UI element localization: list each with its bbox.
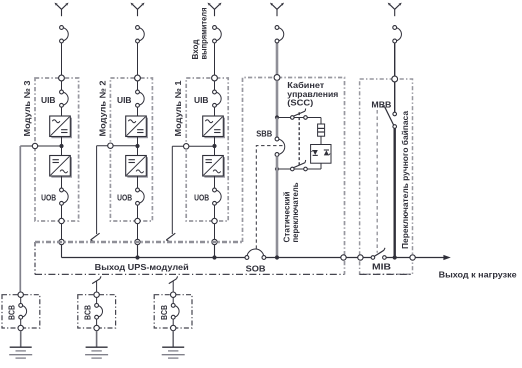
breaker UIB module 2 xyxy=(136,90,145,107)
wire SCC tee to SBB (thick gray) xyxy=(276,118,279,138)
label BCB cabinet 1 xyxy=(8,305,17,320)
module 3 cabinet dashed box xyxy=(35,78,79,221)
label Модуль № 2 xyxy=(97,80,107,136)
SCC cabinet dashed box (L-shape part) xyxy=(243,78,345,275)
node: output-section boundary terminal module 2 xyxy=(135,239,140,244)
svg-text:UOB: UOB xyxy=(194,194,209,203)
wire top-to-BCB breaker 2 xyxy=(96,297,98,303)
svg-text:UIB: UIB xyxy=(41,96,56,105)
wire SCC entry to static-switch tee (thick gray) xyxy=(276,80,279,117)
wire inverter-to-UOB module 3 xyxy=(61,176,63,188)
wire battery tap module 1 xyxy=(172,145,214,147)
node: bus exit terminal bypass box xyxy=(410,255,415,260)
svg-text:Переключатель ручного байпаса: Переключатель ручного байпаса xyxy=(400,111,410,249)
label Модуль № 3 xyxy=(22,80,32,136)
svg-text:Кабинет: Кабинет xyxy=(287,81,324,90)
wire static-switch top branch xyxy=(277,118,321,125)
node: output-section boundary terminal module 1 xyxy=(212,239,217,244)
inverter block module 3 xyxy=(50,156,72,178)
input circuit breaker on module 1 feed xyxy=(213,26,222,43)
wire battery drop module 1 xyxy=(171,146,173,234)
wire SBB to bottom tee (thick gray) xyxy=(276,156,279,169)
wire battery tap module 2 xyxy=(97,145,138,147)
thyristor static switch block (anti-parallel SCR pair) xyxy=(311,145,331,164)
module 1 cabinet dashed box xyxy=(186,78,228,221)
breaker UIB module 1 xyxy=(213,90,222,107)
svg-text:SBB: SBB xyxy=(256,129,272,138)
wire rectifier-to-inverter module 2 xyxy=(137,137,139,156)
node: battery cabinet 2 top terminal xyxy=(94,292,99,297)
contact K1 static-switch top branch xyxy=(291,109,308,120)
node: battery cabinet 1 bottom terminal xyxy=(18,325,23,330)
battery stack symbol cabinet 1 xyxy=(9,347,32,358)
inverter block module 1 xyxy=(203,156,225,178)
label Выход к нагрузке xyxy=(439,269,517,279)
label MIB xyxy=(372,262,391,272)
svg-text:SOB: SOB xyxy=(246,264,266,273)
node: static switch bottom tee xyxy=(275,167,279,171)
breaker SBB xyxy=(275,137,285,156)
svg-text:Модуль № 3: Модуль № 3 xyxy=(22,80,32,136)
wire BCB-to-bottom terminal 3 xyxy=(172,319,174,328)
wire static-switch bottom branch xyxy=(277,168,321,170)
node: battery tap terminal module 2 xyxy=(108,143,113,148)
label UOB module 3 xyxy=(41,194,56,203)
breaker UIB module 3 xyxy=(60,90,69,107)
node: battery cabinet 3 top terminal xyxy=(171,292,176,297)
mechanical linkage MBB-MIB (dashed) xyxy=(376,110,378,253)
wire boundary-to-bus module 1 xyxy=(214,245,216,258)
incoming mains feed arrow (SCC input) xyxy=(270,3,284,17)
label UIB module 3 xyxy=(41,96,56,105)
label SOB xyxy=(246,264,266,273)
label UOB module 1 xyxy=(194,194,209,203)
open link blade battery cabinet 3 xyxy=(169,276,178,283)
svg-text:UOB: UOB xyxy=(117,194,132,203)
node: battery tap terminal module 3 xyxy=(32,143,37,148)
node: bypass feed entry terminal xyxy=(392,76,398,82)
label Статический переключатель xyxy=(283,182,301,242)
mechanical linkage static-switch contacts (dashed) xyxy=(298,112,300,165)
switch MBB (open contact) xyxy=(382,106,397,128)
node: bus junction SCC output xyxy=(275,255,279,259)
label Вход выпрямителя (rectifier input) xyxy=(191,7,208,59)
svg-text:(SCC): (SCC) xyxy=(287,99,313,108)
node: output-section boundary terminal module 3 xyxy=(59,239,64,244)
incoming mains feed arrow (module 2 input) xyxy=(131,3,145,17)
wire feed-to-cabinet (bypass) xyxy=(394,43,396,79)
inverter block module 2 xyxy=(126,156,148,178)
svg-text:UIB: UIB xyxy=(117,96,132,105)
node: SCC feed entry terminal xyxy=(274,75,280,81)
node: static switch top tee xyxy=(275,115,279,119)
node: feed entry terminal module 1 xyxy=(212,75,218,81)
label UIB module 1 xyxy=(194,96,209,105)
label MBB xyxy=(371,100,391,110)
label Модуль № 1 xyxy=(173,80,183,136)
breaker BCB battery cabinet 2 xyxy=(95,304,103,320)
breaker UOB module 1 xyxy=(213,188,222,205)
wire fuse-to-thyristor block xyxy=(320,136,322,144)
node: bus junction module 2 xyxy=(135,255,139,259)
node: bus entry terminal bypass box xyxy=(358,255,363,260)
wire feed-to-cabinet (SCC) xyxy=(276,43,279,78)
label Переключатель ручного байпаса xyxy=(400,111,410,249)
node: DC link junction module 2 xyxy=(135,144,139,148)
wire MBB to bus (thick) xyxy=(394,128,396,257)
breaker UOB module 2 xyxy=(136,188,145,205)
wire rectifier-to-inverter module 1 xyxy=(214,137,216,156)
wire boundary-to-bus module 2 xyxy=(137,245,139,258)
node: battery cabinet 3 bottom terminal xyxy=(171,325,176,330)
svg-text:UIB: UIB xyxy=(194,96,209,105)
output section top boundary (thick gray dash-dot) xyxy=(35,241,243,244)
node: feed entry terminal module 3 xyxy=(59,75,65,81)
wire left battery bus down to BCB1 xyxy=(19,146,21,295)
svg-text:переключатель: переключатель xyxy=(291,182,300,242)
svg-text:Модуль № 1: Модуль № 1 xyxy=(173,80,183,136)
battery stack symbol cabinet 3 xyxy=(162,347,185,358)
wire BCB-to-bottom terminal 2 xyxy=(96,319,98,328)
wire UIB-to-rectifier module 3 xyxy=(61,107,63,116)
contact K2 static-switch bottom branch xyxy=(291,160,308,171)
wire to battery stack 2 xyxy=(96,331,98,347)
wire inverter-to-UOB module 2 xyxy=(137,176,139,188)
wire top-to-BCB breaker 1 xyxy=(20,297,22,303)
breaker UOB module 3 xyxy=(60,188,69,205)
fuse F1 static-switch branch xyxy=(318,124,325,136)
node: DC link junction module 1 xyxy=(212,144,216,148)
svg-text:Модуль № 2: Модуль № 2 xyxy=(97,80,107,136)
input circuit breaker on module 2 feed xyxy=(136,26,145,43)
incoming mains feed arrow (module 1 input) xyxy=(208,3,222,17)
svg-text:BCB: BCB xyxy=(160,305,169,320)
manual bypass cabinet bottom edge (dark) xyxy=(360,273,413,275)
wire UOB-to-exit module 2 xyxy=(137,205,139,221)
node: output exit terminal module 1 xyxy=(212,218,217,223)
manual bypass cabinet dashed box xyxy=(360,79,413,274)
wire entry-to-UIB module 3 xyxy=(61,81,63,90)
incoming mains feed arrow (module 3 input) xyxy=(55,3,69,17)
label Кабинет управления (SCC) xyxy=(287,81,338,108)
label BCB cabinet 2 xyxy=(83,305,92,320)
wire entry-to-UIB module 1 xyxy=(214,81,216,90)
node: bus exit terminal SCC box xyxy=(341,255,346,260)
svg-text:Выход к нагрузке: Выход к нагрузке xyxy=(439,269,517,279)
wire to battery stack 3 xyxy=(172,331,174,347)
battery cabinet 3 dashed box xyxy=(154,295,192,328)
wire battery tap module 3 (to left battery bus) xyxy=(20,145,61,147)
wire top-to-BCB breaker 3 xyxy=(172,297,174,303)
svg-text:MIB: MIB xyxy=(372,262,391,272)
svg-text:UOB: UOB xyxy=(41,194,56,203)
input circuit breaker on bypass feed xyxy=(393,26,402,43)
wire UIB-to-rectifier module 2 xyxy=(137,107,139,116)
node: output exit terminal module 2 xyxy=(135,218,140,223)
open link blade module 1 battery drop xyxy=(166,233,175,241)
label BCB cabinet 3 xyxy=(160,305,169,320)
wire UIB-to-rectifier module 1 xyxy=(214,107,216,116)
node: bus junction module 1 xyxy=(212,255,216,259)
battery cabinet 2 dashed box xyxy=(78,295,116,328)
node: DC link junction module 3 xyxy=(59,144,63,148)
module 2 cabinet dashed box xyxy=(110,78,152,221)
node: bus junction bypass xyxy=(393,255,397,259)
output/SCC section bottom boundary (dark dash-dot) xyxy=(35,273,345,275)
wire battery drop module 2 xyxy=(96,146,98,234)
arrowhead output to load xyxy=(443,255,450,260)
rectifier block module 1 xyxy=(203,116,225,138)
interlock linkage SBB-SOB (dashed) xyxy=(256,146,282,250)
svg-text:MBB: MBB xyxy=(371,100,391,110)
wire riser battery cabinet 3 xyxy=(172,281,174,295)
wire riser battery cabinet 2 xyxy=(96,281,98,295)
input circuit breaker on SCC feed xyxy=(275,26,284,43)
incoming mains feed arrow (bypass input) xyxy=(388,3,402,17)
switch MIB (open contact) on bus xyxy=(371,248,386,259)
rectifier block module 2 xyxy=(126,116,148,138)
battery stack symbol cabinet 2 xyxy=(85,347,108,358)
node: feed entry terminal module 2 xyxy=(135,75,141,81)
label Выход UPS-модулей xyxy=(95,262,189,272)
svg-text:BCB: BCB xyxy=(8,305,17,320)
wire UOB-to-exit module 1 xyxy=(214,205,216,221)
wire boundary-to-bus module 3 xyxy=(61,245,63,258)
input circuit breaker on module 3 feed xyxy=(60,26,69,43)
wire SCC static switch output to bus (thick gray) xyxy=(276,169,279,258)
svg-text:выпрямителя: выпрямителя xyxy=(200,7,209,59)
wire UOB-to-exit module 3 xyxy=(61,205,63,221)
open link blade module 2 battery drop xyxy=(91,233,100,241)
wire feed-to-cabinet (module 2) xyxy=(137,43,139,78)
wire feed-to-cabinet (module 3) xyxy=(61,43,63,78)
label UIB module 2 xyxy=(117,96,132,105)
wire to battery stack 1 xyxy=(20,331,22,347)
open link blade battery cabinet 2 xyxy=(92,276,101,283)
svg-text:BCB: BCB xyxy=(83,305,92,320)
wire entry-to-UIB module 2 xyxy=(137,81,139,90)
output section left boundary xyxy=(34,242,36,275)
wire bypass entry to MBB xyxy=(394,82,396,112)
bus Выход UPS-модулей (output bus) xyxy=(62,257,449,259)
wire rectifier-to-inverter module 3 xyxy=(61,137,63,156)
breaker BCB battery cabinet 3 xyxy=(171,304,179,320)
wire exit-to-output-section module 1 xyxy=(214,224,216,242)
battery cabinet 1 dashed box xyxy=(2,295,40,328)
wire inverter-to-UOB module 1 xyxy=(214,176,216,188)
breaker BCB battery cabinet 1 xyxy=(19,304,27,320)
wire exit-to-output-section module 3 xyxy=(61,224,63,242)
node: battery cabinet 2 bottom terminal xyxy=(94,325,99,330)
node: battery cabinet 1 top terminal xyxy=(18,292,23,297)
label SBB xyxy=(256,129,272,138)
wire thyristor-to-bottom branch xyxy=(320,163,322,169)
svg-text:Выход UPS-модулей: Выход UPS-модулей xyxy=(95,262,189,272)
wire feed-to-cabinet (module 1) xyxy=(214,43,216,78)
wire BCB-to-bottom terminal 1 xyxy=(20,319,22,328)
breaker SOB on output bus xyxy=(245,249,266,259)
label UOB module 2 xyxy=(117,194,132,203)
wire exit-to-output-section module 2 xyxy=(137,224,139,242)
rectifier block module 3 xyxy=(50,116,72,138)
node: output exit terminal module 3 xyxy=(59,218,64,223)
node: battery tap terminal module 1 xyxy=(184,144,189,149)
